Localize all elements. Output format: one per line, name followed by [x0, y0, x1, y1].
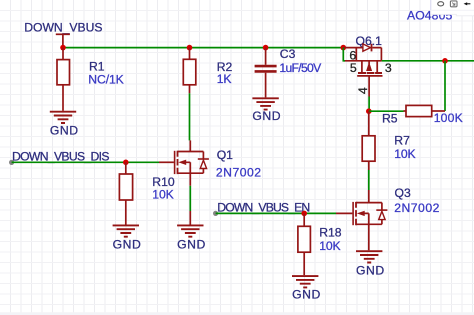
- toolbar overlay top right: [431, 0, 474, 16]
- toolbar icon ellipse: [438, 2, 444, 6]
- ground for Q3: [356, 251, 385, 277]
- resistor R18: [298, 213, 342, 275]
- junction above R5: [442, 58, 448, 64]
- svg-text:1K: 1K: [217, 72, 232, 86]
- resistor R5: [382, 105, 463, 125]
- wire R2 to Q1 drain: [189, 93, 191, 140]
- junction at gate node: [366, 108, 372, 114]
- svg-text:3: 3: [385, 61, 392, 75]
- svg-text:Q3: Q3: [395, 186, 411, 200]
- resistor R10: [119, 162, 174, 224]
- toolbar icon arrow: [464, 2, 468, 5]
- wire Q6.1 gate down: [368, 97, 370, 112]
- bottom window strip: [0, 312, 474, 315]
- ground for R18: [292, 276, 321, 301]
- svg-text:2N7002: 2N7002: [216, 165, 262, 179]
- wire DOWN_VBUS_DIS: [12, 161, 159, 163]
- ground for R10: [113, 225, 142, 251]
- svg-text:GND: GND: [177, 238, 206, 252]
- junction at R2 tap: [187, 45, 193, 51]
- wire Q6.1 pin 3 to right edge: [382, 60, 474, 62]
- port dot EN: [213, 211, 218, 216]
- svg-text:2N7002: 2N7002: [394, 201, 440, 215]
- n-mosfet Q1: [159, 140, 262, 185]
- svg-text:Q6.1: Q6.1: [356, 34, 383, 48]
- svg-text:Q1: Q1: [217, 148, 233, 162]
- wire VBUS top rail: [63, 47, 343, 49]
- ground for R1: [50, 112, 79, 138]
- junction at R10 tap: [123, 160, 129, 166]
- wire Q1 source to ground: [189, 186, 191, 211]
- ground for Q1: [177, 225, 206, 251]
- svg-text:5: 5: [350, 61, 357, 75]
- toolbar icon box: [450, 1, 457, 7]
- svg-text:GND: GND: [356, 263, 385, 277]
- n-mosfet Q3: [336, 186, 440, 251]
- resistor R7: [362, 111, 415, 170]
- svg-text:GND: GND: [50, 124, 79, 138]
- ground for C3: [252, 98, 281, 123]
- svg-text:1uF/50V: 1uF/50V: [279, 61, 322, 75]
- port dot DIS: [9, 160, 14, 165]
- resistor R1: [57, 48, 124, 111]
- svg-text:R7: R7: [394, 134, 410, 148]
- wire down to R5: [444, 61, 446, 111]
- resistor R2: [183, 48, 232, 94]
- svg-text:C3: C3: [280, 47, 296, 61]
- wire R7 to Q3 drain: [368, 170, 370, 190]
- svg-text:GND: GND: [113, 238, 142, 252]
- svg-text:GND: GND: [292, 288, 321, 302]
- capacitor C3: [255, 47, 323, 97]
- junction at Q6.1: [341, 45, 347, 51]
- power port DOWN_VBUS: [24, 20, 102, 47]
- svg-text:10K: 10K: [319, 239, 340, 253]
- junction at R18 tap: [301, 211, 307, 217]
- svg-text:R5: R5: [382, 111, 398, 125]
- svg-text:10K: 10K: [394, 147, 415, 161]
- junction at C3 tap: [263, 45, 269, 51]
- svg-text:DOWN_VBUS: DOWN_VBUS: [24, 20, 102, 34]
- svg-text:4: 4: [356, 87, 370, 94]
- svg-text:GND: GND: [252, 109, 281, 123]
- wire DOWN_VBUS_EN: [216, 212, 336, 214]
- svg-text:NC/1K: NC/1K: [88, 72, 123, 86]
- svg-text:10K: 10K: [152, 187, 173, 201]
- junction at R1 tap: [60, 45, 66, 51]
- svg-text:R18: R18: [319, 226, 342, 240]
- wire gate node to R5: [369, 110, 404, 112]
- p-mosfet Q6.1: [343, 34, 392, 97]
- svg-text:DOWN_VBUS_EN: DOWN_VBUS_EN: [217, 201, 309, 215]
- svg-text:100K: 100K: [434, 111, 463, 125]
- svg-text:DOWN_VBUS_DIS: DOWN_VBUS_DIS: [12, 149, 109, 163]
- wire junction to Q6.1 pin 5/6: [343, 48, 345, 61]
